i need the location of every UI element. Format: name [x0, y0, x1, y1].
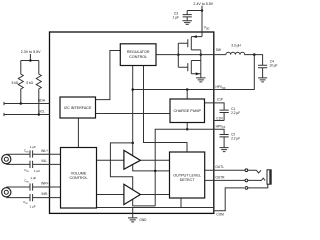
svg-text:2.2 µF: 2.2 µF — [231, 111, 240, 115]
wire I2C to charge pump — [96, 113, 171, 115]
wire COM external — [214, 188, 244, 211]
wire VDD supply drop — [201, 6, 203, 37]
wire C3 branch — [187, 10, 202, 12]
svg-text:I2C INTERFACE: I2C INTERFACE — [64, 106, 92, 110]
capacitor C4 — [258, 65, 267, 77]
ground for C4 — [258, 78, 267, 82]
node HPVDD-column junction — [131, 88, 134, 91]
svg-text:INR+: INR+ — [41, 182, 48, 186]
svg-text:10 µF: 10 µF — [269, 64, 277, 68]
wire C1P line — [205, 103, 225, 110]
node jack ring contact — [245, 179, 248, 182]
svg-text:C1N: C1N — [216, 117, 223, 121]
svg-text:CHARGE PUMP: CHARGE PUMP — [173, 109, 201, 113]
node R1-SDA junction — [20, 102, 23, 105]
svg-text:1 µF: 1 µF — [34, 169, 40, 173]
capacitor C1 — [220, 110, 229, 120]
svg-text:OUTPUT LEVEL: OUTPUT LEVEL — [173, 173, 201, 177]
svg-text:INR-: INR- — [41, 192, 48, 196]
svg-text:5 kΩ: 5 kΩ — [12, 81, 19, 85]
node SW-L1 output junction — [253, 53, 256, 56]
wire C4 branch — [254, 55, 262, 66]
wire lower amp VSS — [133, 199, 156, 206]
wire INR- line — [6, 197, 60, 199]
ground GND pin — [128, 208, 137, 222]
wire OUTL line — [205, 169, 245, 171]
wire SCL line — [4, 114, 50, 116]
wire jack ring spring — [248, 178, 265, 180]
arrow Q2 source — [196, 72, 200, 75]
capacitor CIN4 — [30, 194, 33, 201]
wire volume control to lower amp — [97, 194, 124, 196]
svg-text:C1P: C1P — [217, 97, 223, 101]
wire jack tip spring — [248, 170, 261, 173]
svg-text:3.3 µH: 3.3 µH — [231, 43, 241, 47]
node supply junction — [29, 59, 32, 62]
chip outline U1 — [50, 32, 214, 213]
svg-text:5 kΩ: 5 kΩ — [26, 81, 33, 85]
wire INL- line — [6, 163, 60, 165]
node SCL end tick — [3, 113, 5, 116]
op-amp A1 left channel — [124, 150, 140, 169]
resistor R2 5k — [36, 61, 41, 115]
block volume control — [61, 148, 97, 209]
svg-text:1 µF: 1 µF — [30, 204, 36, 208]
ground for C3 — [183, 21, 193, 25]
svg-text:2.3V to 5.5V: 2.3V to 5.5V — [21, 50, 41, 54]
node HPVDD-chargepump junction — [186, 88, 189, 91]
node R2-SCL junction — [38, 113, 41, 116]
wire output level detect bottom drop — [180, 198, 182, 208]
wire upper amp output — [140, 159, 169, 161]
node HPVSS upper amp junction — [154, 170, 157, 173]
svg-text:OUTL: OUTL — [215, 165, 224, 169]
svg-text:1 µF: 1 µF — [30, 145, 36, 149]
svg-text:COM: COM — [216, 212, 224, 216]
wire jack sleeve lead — [248, 184, 268, 188]
block I2C interface — [60, 97, 96, 118]
wire lower amp output — [140, 194, 169, 196]
svg-text:INL+: INL+ — [41, 149, 48, 153]
node drain bus junction — [200, 53, 203, 56]
node HPVSS-chargepump junction — [186, 128, 189, 131]
wire OUTR line — [205, 179, 245, 181]
node SDA end tick — [3, 102, 5, 105]
wire regulator bottom-left column — [132, 66, 134, 156]
block charge pump — [170, 99, 205, 123]
wire SW line — [156, 54, 226, 56]
transistor Q1 PMOS — [178, 37, 202, 50]
wire C2 branch — [214, 129, 224, 134]
wire HPVDD branch to lower amp — [110, 143, 132, 190]
transistor Q2 NMOS — [178, 61, 201, 74]
resistor R1 5k — [18, 61, 23, 104]
node VDD junction — [201, 9, 204, 12]
capacitor C3 — [183, 11, 192, 21]
inductor L1 3.3uH — [226, 52, 254, 54]
node jack tip contact — [245, 169, 248, 172]
capacitor C2 — [220, 135, 229, 148]
svg-text:1 µF: 1 µF — [30, 176, 36, 180]
block output level detect — [170, 152, 205, 198]
wire I2C to regulator control — [96, 51, 121, 100]
wire HPVDD rail — [133, 89, 214, 91]
svg-text:GND: GND — [139, 218, 147, 222]
wire volume control to upper amp — [97, 159, 124, 161]
input jack J2 — [2, 188, 11, 197]
svg-text:2.4V to 5.5V: 2.4V to 5.5V — [193, 2, 213, 6]
ground for C2 — [220, 148, 229, 152]
op-amp A2 right channel — [124, 184, 140, 204]
node jack sleeve contact — [245, 187, 248, 190]
node HPVDD amp branch junction — [131, 142, 134, 145]
wire HPVSS rail — [155, 129, 214, 206]
wire gate bus — [177, 43, 179, 67]
wire charge pump bottom drop — [186, 123, 188, 130]
wire C1N line — [214, 120, 224, 122]
svg-text:2.2 µF: 2.2 µF — [231, 136, 240, 140]
wire INR+ line — [6, 186, 60, 188]
wire drain bus — [200, 50, 202, 74]
capacitor CIN3 — [30, 183, 33, 190]
capacitor CIN1 — [30, 150, 33, 157]
wire HPVDD external — [214, 55, 255, 90]
svg-text:SW: SW — [216, 48, 221, 52]
wire SDA line — [4, 103, 50, 105]
wire upper amp VSS — [133, 164, 170, 171]
svg-text:1 µF: 1 µF — [173, 15, 179, 19]
arrow Q1 source — [193, 35, 197, 38]
wire I2C to volume control — [77, 118, 79, 148]
wire INL+ line — [6, 153, 60, 155]
svg-text:VOLUME: VOLUME — [71, 171, 87, 175]
input jack J1 — [2, 155, 11, 164]
svg-text:OUTR: OUTR — [215, 175, 225, 179]
wire supply stub — [21, 54, 39, 61]
wire regulator bottom-right to output level detect — [144, 66, 188, 153]
svg-text:SCL: SCL — [38, 110, 45, 114]
svg-text:CONTROL: CONTROL — [69, 176, 87, 180]
capacitor CIN2 — [30, 161, 33, 168]
svg-text:INL-: INL- — [41, 159, 47, 163]
block regulator control — [120, 44, 156, 66]
ground for Q2 source — [196, 74, 205, 82]
svg-text:REGULATOR: REGULATOR — [127, 50, 150, 54]
node gate bus junction — [177, 53, 180, 56]
svg-text:DETECT: DETECT — [180, 178, 195, 182]
svg-text:CONTROL: CONTROL — [129, 55, 147, 59]
wire COM rail — [97, 207, 214, 209]
wire charge pump top drop — [186, 90, 188, 100]
headphone jack body — [267, 170, 271, 184]
